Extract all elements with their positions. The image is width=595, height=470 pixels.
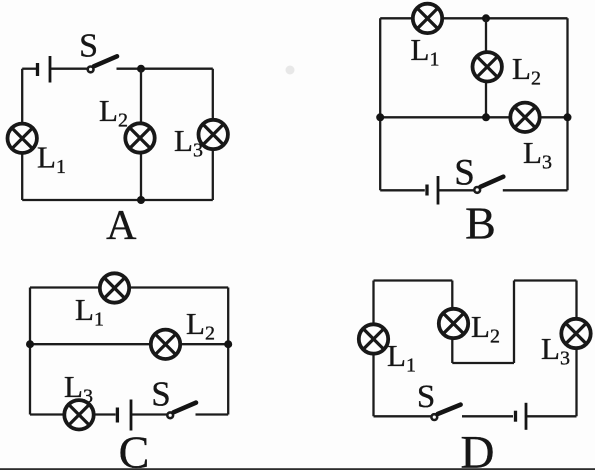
wire A top-left corner to battery	[22, 68, 36, 70]
label L1 (circuit B)	[411, 32, 440, 71]
svg-text:S: S	[454, 153, 475, 194]
lamp L3 (circuit B)	[510, 103, 539, 132]
switch S (circuit C) blade	[174, 403, 197, 413]
battery BT-C short plate	[116, 408, 119, 423]
switch S (circuit B) pivot	[474, 187, 480, 193]
junction node B mid-right	[564, 113, 572, 121]
battery BT-D short plate	[514, 411, 517, 422]
svg-text:L2: L2	[512, 51, 541, 90]
junction node B mid-left	[376, 113, 384, 121]
wire C lamp to battery	[94, 413, 116, 415]
label L2 (circuit C)	[186, 306, 215, 345]
wire A middle branch vertical	[140, 69, 142, 200]
switch S (circuit D) blade	[438, 405, 461, 414]
wire D L2 branch vertical	[451, 281, 453, 364]
svg-text:S: S	[151, 375, 170, 414]
svg-text:S: S	[417, 379, 435, 415]
junction node B top	[482, 14, 490, 22]
label L2 (circuit A)	[99, 93, 128, 132]
lamp L2 (circuit A)	[125, 123, 154, 152]
svg-text:S: S	[79, 27, 98, 64]
wire D U-right vertical	[513, 281, 515, 364]
battery BT-B long plate	[437, 176, 440, 205]
switch S (circuit B) blade	[480, 177, 503, 187]
wire C top	[30, 286, 228, 288]
svg-text:L2: L2	[471, 309, 500, 348]
wire C battery to switch	[132, 413, 167, 415]
label C	[119, 427, 150, 470]
label B	[465, 198, 496, 249]
wire C switch to bottom-right corner	[196, 413, 229, 415]
lamp L2 (circuit C)	[151, 330, 180, 359]
lamp L3 (circuit C)	[64, 400, 93, 429]
wire D right vertical	[575, 281, 577, 417]
wire A left branch vertical	[21, 69, 23, 200]
faint scan speckle	[286, 66, 295, 75]
label A	[106, 203, 137, 249]
label L3 (circuit D)	[541, 331, 570, 370]
switch S (circuit A) blade	[94, 56, 117, 66]
label L2 (circuit D)	[471, 309, 500, 348]
lamp L1 (circuit D)	[359, 324, 388, 353]
label L3 (circuit C)	[64, 369, 93, 408]
wire A bottom	[22, 199, 213, 201]
label S (circuit A)	[79, 27, 98, 64]
wire D top-left horizontal	[374, 279, 453, 281]
label L1 (circuit A)	[37, 140, 66, 179]
lamp L1 (circuit C)	[100, 273, 129, 302]
svg-text:B: B	[465, 198, 496, 249]
wire B right vertical	[566, 18, 568, 190]
switch S (circuit A) pivot	[88, 67, 94, 73]
label L3 (circuit A)	[174, 123, 203, 162]
wire A battery to switch	[51, 68, 88, 70]
battery BT-A long plate	[49, 56, 52, 83]
label L3 (circuit B)	[523, 135, 552, 174]
label L2 (circuit B)	[512, 51, 541, 90]
svg-text:L1: L1	[75, 292, 104, 331]
label S (circuit C)	[151, 375, 170, 414]
battery BT-A short plate	[36, 63, 39, 76]
lamp L2 (circuit D)	[439, 309, 468, 338]
svg-text:L2: L2	[186, 306, 215, 345]
lamp L1 (circuit A)	[8, 124, 37, 153]
lamp L3 (circuit A)	[199, 120, 228, 149]
wire C middle horizontal	[30, 343, 228, 345]
svg-text:L1: L1	[387, 338, 416, 377]
svg-text:L3: L3	[64, 369, 93, 408]
battery BT-B short plate	[425, 185, 428, 196]
svg-text:L3: L3	[523, 135, 552, 174]
lamp L2 (circuit B)	[473, 52, 502, 81]
wire D battery to bottom-right corner	[527, 415, 577, 417]
wire D U-bottom horizontal	[452, 362, 514, 364]
wire C left vertical	[29, 288, 31, 415]
switch S (circuit D) pivot	[431, 414, 437, 420]
svg-text:D: D	[461, 427, 495, 470]
wire B battery to switch	[439, 189, 474, 191]
junction node B mid-center	[482, 113, 490, 121]
lamp L1 (circuit B)	[413, 4, 442, 33]
switch S (circuit C) pivot	[167, 412, 173, 418]
wire D left vertical	[372, 281, 374, 417]
lamp L3 (circuit D)	[561, 319, 590, 348]
wire C right vertical	[227, 288, 229, 415]
junction node C mid-left	[26, 340, 34, 348]
label S (circuit B)	[454, 153, 475, 194]
wire B middle horizontal	[380, 116, 567, 118]
wire D bottom-left corner to switch	[374, 415, 432, 417]
svg-text:A: A	[106, 203, 137, 249]
junction node A bottom	[137, 196, 145, 204]
wire A switch to top-right corner	[117, 68, 213, 70]
scan edge line at bottom of page	[0, 468, 595, 470]
svg-text:C: C	[119, 427, 150, 470]
label S (circuit D)	[417, 379, 435, 415]
label L1 (circuit D)	[387, 338, 416, 377]
wire B top	[380, 17, 567, 19]
wire D top-right horizontal	[514, 279, 577, 281]
junction node A top	[137, 65, 145, 73]
wire A right branch vertical	[212, 69, 214, 200]
label L1 (circuit C)	[75, 292, 104, 331]
battery BT-D long plate	[525, 403, 528, 430]
wire B middle branch vertical	[485, 18, 487, 117]
battery BT-C long plate	[130, 400, 133, 431]
wire D switch to battery	[462, 415, 513, 417]
svg-text:L2: L2	[99, 93, 128, 132]
wire B switch to bottom-right corner	[503, 189, 568, 191]
svg-text:L1: L1	[411, 32, 440, 71]
wire C bottom-left corner to lamp	[30, 413, 65, 415]
junction node C mid-right	[224, 340, 232, 348]
svg-text:L1: L1	[37, 140, 66, 179]
wire B bottom left	[380, 189, 425, 191]
wire B left vertical	[379, 18, 381, 190]
label D	[461, 427, 495, 470]
